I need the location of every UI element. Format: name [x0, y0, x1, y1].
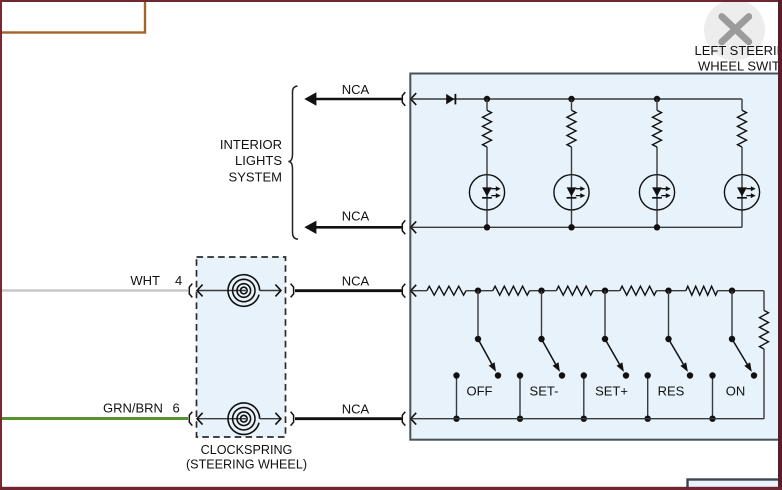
wire bottom rail [411, 418, 764, 420]
resistor R4 [738, 110, 747, 147]
node LED return junction 1 [484, 224, 490, 230]
LED 2 [554, 175, 589, 210]
wire common stub ON [709, 372, 715, 422]
svg-text:6: 6 [173, 401, 180, 416]
LED 4 [724, 175, 759, 210]
svg-text:NCA: NCA [342, 401, 370, 416]
diode [446, 94, 455, 105]
svg-text:ON: ON [726, 384, 746, 399]
connector pin on switch box (resistor chain) [402, 284, 416, 298]
wire common stub OFF [453, 372, 459, 422]
wire LED branch 4 [741, 99, 743, 227]
resistor R7 [556, 286, 593, 295]
switch RES [665, 291, 693, 379]
wire LED branch 1 [486, 99, 488, 227]
node LED return junction 3 [654, 224, 660, 230]
wire LED return rail [411, 226, 742, 228]
svg-text:RES: RES [658, 384, 685, 399]
page border top [0, 0, 782, 2]
wire resistor chain rail [411, 290, 764, 292]
svg-text:SET+: SET+ [595, 384, 628, 399]
wire LED branch 2 [571, 99, 573, 227]
wire WHT [0, 289, 188, 292]
node chain junction 5 [729, 288, 735, 294]
svg-text:WHEEL SWITCH: WHEEL SWITCH [698, 58, 782, 73]
svg-text:WHT: WHT [130, 273, 160, 288]
resistor R8 [620, 286, 657, 295]
clockspring (steering wheel) box [197, 257, 286, 437]
resistor R2 [567, 110, 576, 147]
svg-text:SET-: SET- [530, 384, 559, 399]
svg-text:GRN/BRN: GRN/BRN [103, 401, 163, 416]
svg-text:SYSTEM: SYSTEM [229, 170, 282, 185]
svg-text:CLOCKSPRING: CLOCKSPRING [201, 443, 293, 457]
wire GRN/BRN [0, 417, 188, 420]
svg-text:NCA: NCA [342, 208, 370, 223]
connector pin on switch box (switch common) [402, 412, 416, 426]
connector pin clockspring right lower [291, 412, 294, 426]
node top rail junction 1 [484, 96, 490, 102]
wire top rail [411, 98, 742, 100]
connector pin on switch box (LED return) [402, 220, 416, 234]
left steering wheel switch box [410, 74, 782, 440]
LED 3 [639, 175, 674, 210]
wire right branch [763, 291, 765, 419]
connector pin clockspring left upper [189, 284, 192, 298]
connector pin clockspring left lower [189, 412, 192, 426]
connector pin clockspring right upper [291, 284, 294, 298]
node chain junction 4 [665, 288, 671, 294]
resistor R10 (right) [760, 310, 769, 349]
label INTERIOR LIGHTS SYSTEM [220, 137, 282, 185]
node chain junction 3 [602, 288, 608, 294]
partial connector box top-left [0, 0, 145, 33]
page border left [0, 0, 2, 490]
wire NCA clockspring to switch box (lower) [295, 417, 402, 420]
wire LED branch 3 [656, 99, 658, 227]
wire common stub RES [645, 372, 651, 422]
svg-text:INTERIOR: INTERIOR [220, 137, 282, 152]
svg-text:NCA: NCA [342, 273, 370, 288]
wire common stub SET- [517, 372, 523, 422]
clockspring coil lower [197, 403, 281, 435]
switch ON [729, 291, 757, 379]
node LED return junction 2 [568, 224, 574, 230]
wire NCA to interior lights (LED return) [304, 221, 401, 234]
label WHT pin 4 [130, 273, 182, 288]
resistor R6 [493, 286, 530, 295]
switch OFF [475, 291, 501, 379]
wire NCA to interior lights (top) [304, 92, 401, 105]
connector pin on switch box (top) [402, 92, 416, 106]
label CLOCKSPRING (STEERING WHEEL) [186, 443, 307, 471]
resistor R3 [653, 110, 662, 147]
label LEFT STEERING WHEEL SWITCH [695, 43, 782, 73]
svg-text:4: 4 [175, 273, 182, 288]
label GRN/BRN pin 6 [103, 401, 180, 416]
svg-text:OFF: OFF [467, 384, 493, 399]
svg-text:NCA: NCA [342, 82, 370, 97]
interior lights system brace [288, 86, 298, 239]
partial box bottom-right [688, 480, 782, 490]
page border right [778, 0, 782, 490]
svg-text:(STEERING WHEEL): (STEERING WHEEL) [186, 458, 307, 472]
switch SET- [538, 291, 565, 379]
node chain junction 2 [538, 288, 544, 294]
resistor R5 [427, 286, 466, 295]
LED 1 [469, 175, 504, 210]
clockspring coil upper [197, 275, 281, 307]
node top rail junction 3 [654, 96, 660, 102]
node chain junction 1 [475, 288, 481, 294]
page border bottom [0, 487, 782, 490]
svg-text:LIGHTS: LIGHTS [235, 153, 282, 168]
close button [704, 0, 765, 61]
resistor R9 [686, 286, 718, 295]
wire NCA clockspring to switch box (upper) [295, 289, 402, 292]
switch SET+ [602, 291, 629, 379]
node top rail junction 2 [568, 96, 574, 102]
resistor R1 [483, 110, 492, 147]
wire common stub SET+ [581, 372, 587, 422]
svg-text:LEFT STEERING: LEFT STEERING [695, 43, 782, 58]
